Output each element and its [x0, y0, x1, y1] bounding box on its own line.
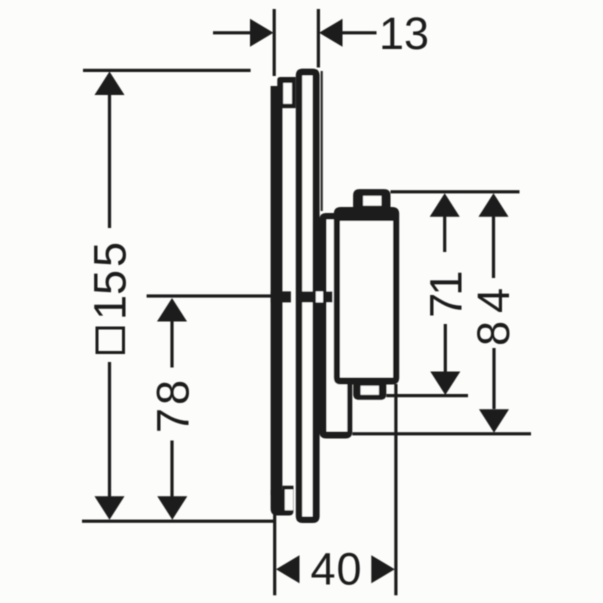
dim 78 top arrow	[157, 298, 187, 322]
dim 78 dimension line upper	[170, 320, 173, 368]
svg-text:13: 13	[379, 8, 429, 59]
dim 13 left extension line	[273, 9, 276, 76]
dim 40 right extension line	[394, 384, 397, 595]
dim 155 dimension line upper	[108, 93, 111, 228]
svg-text:84: 84	[468, 280, 519, 346]
front plate interior white	[302, 76, 312, 517]
dim 155 square symbol	[97, 328, 124, 353]
dim 40 right arrow	[371, 555, 395, 583]
dim 40 left arrow	[276, 555, 300, 583]
dim 155 top extension line	[83, 69, 251, 72]
dim 78 dimension line lower	[170, 441, 173, 498]
dim 71 bottom arrow	[430, 372, 460, 396]
handle cap	[353, 189, 390, 214]
dim 84 dimension line upper	[492, 215, 495, 278]
front escutcheon plate outer	[296, 69, 320, 523]
back top bracket groove	[283, 83, 292, 104]
dim 155/78 bottom extension line	[82, 520, 275, 523]
dim 84 dimension line lower	[492, 348, 495, 409]
handle foot	[353, 383, 386, 400]
dim 13 right arrow	[319, 19, 343, 47]
thin housing line right of plate	[321, 71, 323, 211]
dim 71 dimension line upper	[443, 215, 446, 252]
back mounting bar	[271, 86, 283, 495]
back bottom bracket	[271, 486, 294, 516]
dim 84 bottom extension line	[352, 432, 531, 435]
dim 155 dimension line lower	[108, 362, 111, 497]
dim 40 left extension line	[273, 506, 276, 596]
dim 84 top arrow	[479, 193, 509, 217]
dim 71 top arrow	[430, 193, 460, 217]
back bottom bracket groove	[285, 490, 293, 511]
valve stem bar left segment	[271, 291, 291, 302]
dim 13 right tail line	[343, 31, 377, 34]
dim 155 bottom arrow	[95, 496, 125, 520]
dim 78 bottom arrow	[157, 496, 187, 520]
svg-text:40: 40	[311, 544, 363, 595]
handle body interior white	[340, 221, 393, 378]
dim 71 dimension line lower	[444, 324, 447, 373]
sleeve interior white	[327, 220, 348, 432]
dim 155 top arrow	[95, 72, 125, 96]
dim 71/84 top extension line	[391, 190, 520, 193]
back top bracket	[277, 77, 296, 108]
svg-text:71: 71	[421, 273, 472, 318]
handle body outer	[334, 207, 399, 385]
dim 13 left tail line	[213, 31, 250, 34]
dim 13 right extension line	[317, 9, 320, 68]
sleeve behind handle outer	[319, 213, 352, 439]
white notch over sleeve edge	[316, 291, 323, 302]
handle cap window	[363, 196, 381, 206]
handle foot window	[361, 386, 379, 395]
valve stem bar right segment	[323, 291, 332, 302]
dim 78 top extension line	[147, 294, 273, 297]
valve stem bar middle segment	[298, 291, 316, 302]
dim 71 bottom extension line	[386, 394, 468, 397]
dim 84 bottom arrow	[479, 409, 509, 433]
svg-text:78: 78	[148, 377, 199, 433]
svg-text:155: 155	[85, 242, 136, 320]
dim 13 left arrow	[250, 19, 274, 47]
